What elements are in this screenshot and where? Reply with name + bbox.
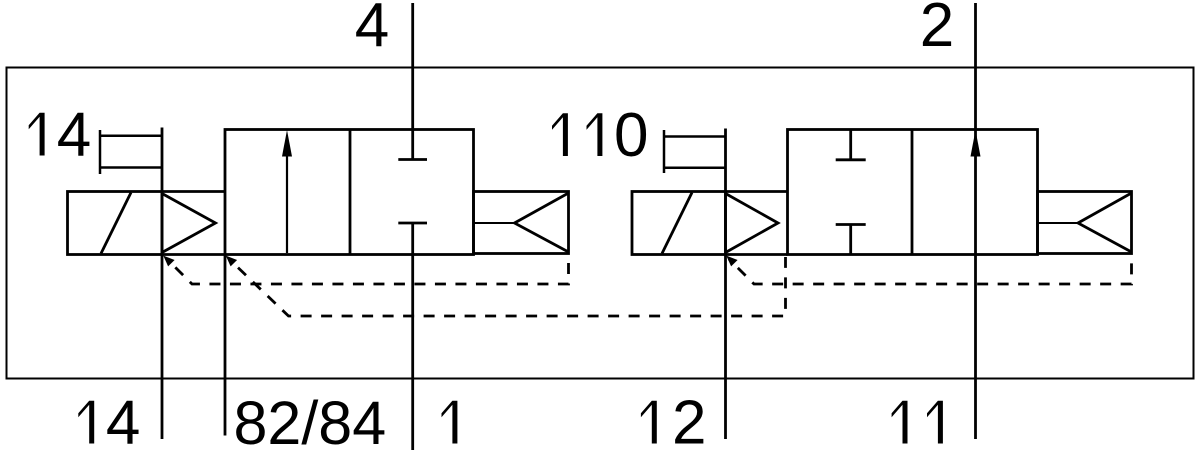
valve V1 flow arrow (286, 152, 288, 253)
pilot control line to 82/84 (dashed) (229, 257, 786, 316)
pilot return triangle V1 (515, 193, 569, 252)
pilot return box V1 (474, 192, 569, 254)
valve V1 body (225, 130, 474, 255)
solenoid coil Y1 box (68, 192, 163, 255)
solenoid coil Y2 diagonal (662, 193, 692, 254)
port label 1 (442, 401, 458, 444)
valve V2 position divider (911, 130, 914, 255)
pilot actuator cell V1 bottom edge (162, 253, 225, 256)
svg-text:4: 4 (355, 0, 389, 60)
svg-text:82/84: 82/84 (234, 389, 387, 450)
valve V2 body (788, 130, 1038, 255)
valve V1 closed port bottom (398, 222, 427, 225)
valve V2 closed port top (849, 130, 852, 160)
svg-text:4: 4 (106, 389, 140, 450)
pilot 110 bracket top line (664, 135, 726, 138)
svg-text:0: 0 (614, 101, 648, 170)
manifold outline (7, 68, 1194, 379)
pilot actuator triangle V1 (162, 194, 216, 253)
pilot 110 bracket bottom line (664, 167, 726, 170)
port 2 / port 11 line (974, 3, 977, 439)
pilot label 110 (552, 113, 568, 156)
pilot 14 bracket tick (99, 130, 102, 174)
port 4 line (411, 3, 414, 129)
valve V2 closed port bottom (836, 223, 866, 226)
svg-text:2: 2 (920, 0, 954, 60)
pilot return line V1 (474, 222, 515, 224)
pilot label 14 (29, 113, 45, 156)
pilot return triangle V2 (1078, 193, 1132, 252)
pilot actuator cell V2 bottom edge (726, 253, 788, 256)
pilot control line to 14 (dashed) (167, 257, 569, 284)
solenoid coil Y2 box (632, 192, 726, 255)
pilot actuator cell V1 top edge (162, 190, 225, 193)
node 14 vertical line (161, 128, 164, 440)
pilot control line to 12 (dashed) (729, 257, 1132, 284)
valve V1 position divider (349, 130, 352, 255)
port 1 line (411, 223, 414, 450)
pilot return line V2 (1038, 222, 1079, 224)
pilot return box V2 (1038, 192, 1132, 254)
node 12 vertical line (724, 129, 727, 440)
svg-text:2: 2 (672, 389, 706, 450)
valve V2 flow arrow (971, 130, 981, 157)
node 82/84 vertical line (224, 255, 227, 436)
pilot 14 bracket bottom line (100, 166, 162, 169)
port label 12 (641, 401, 657, 444)
pilot 110 bracket tick (663, 130, 666, 173)
valve V1 closed port top (411, 129, 414, 160)
port label 14 bottom (78, 401, 94, 444)
pilot 14 bracket top line (100, 134, 162, 137)
port label 11 (892, 401, 908, 444)
pilot actuator triangle V2 (726, 194, 779, 253)
pilot actuator cell V2 top edge (726, 190, 788, 193)
solenoid coil Y1 diagonal (101, 193, 131, 254)
svg-text:4: 4 (57, 101, 91, 170)
